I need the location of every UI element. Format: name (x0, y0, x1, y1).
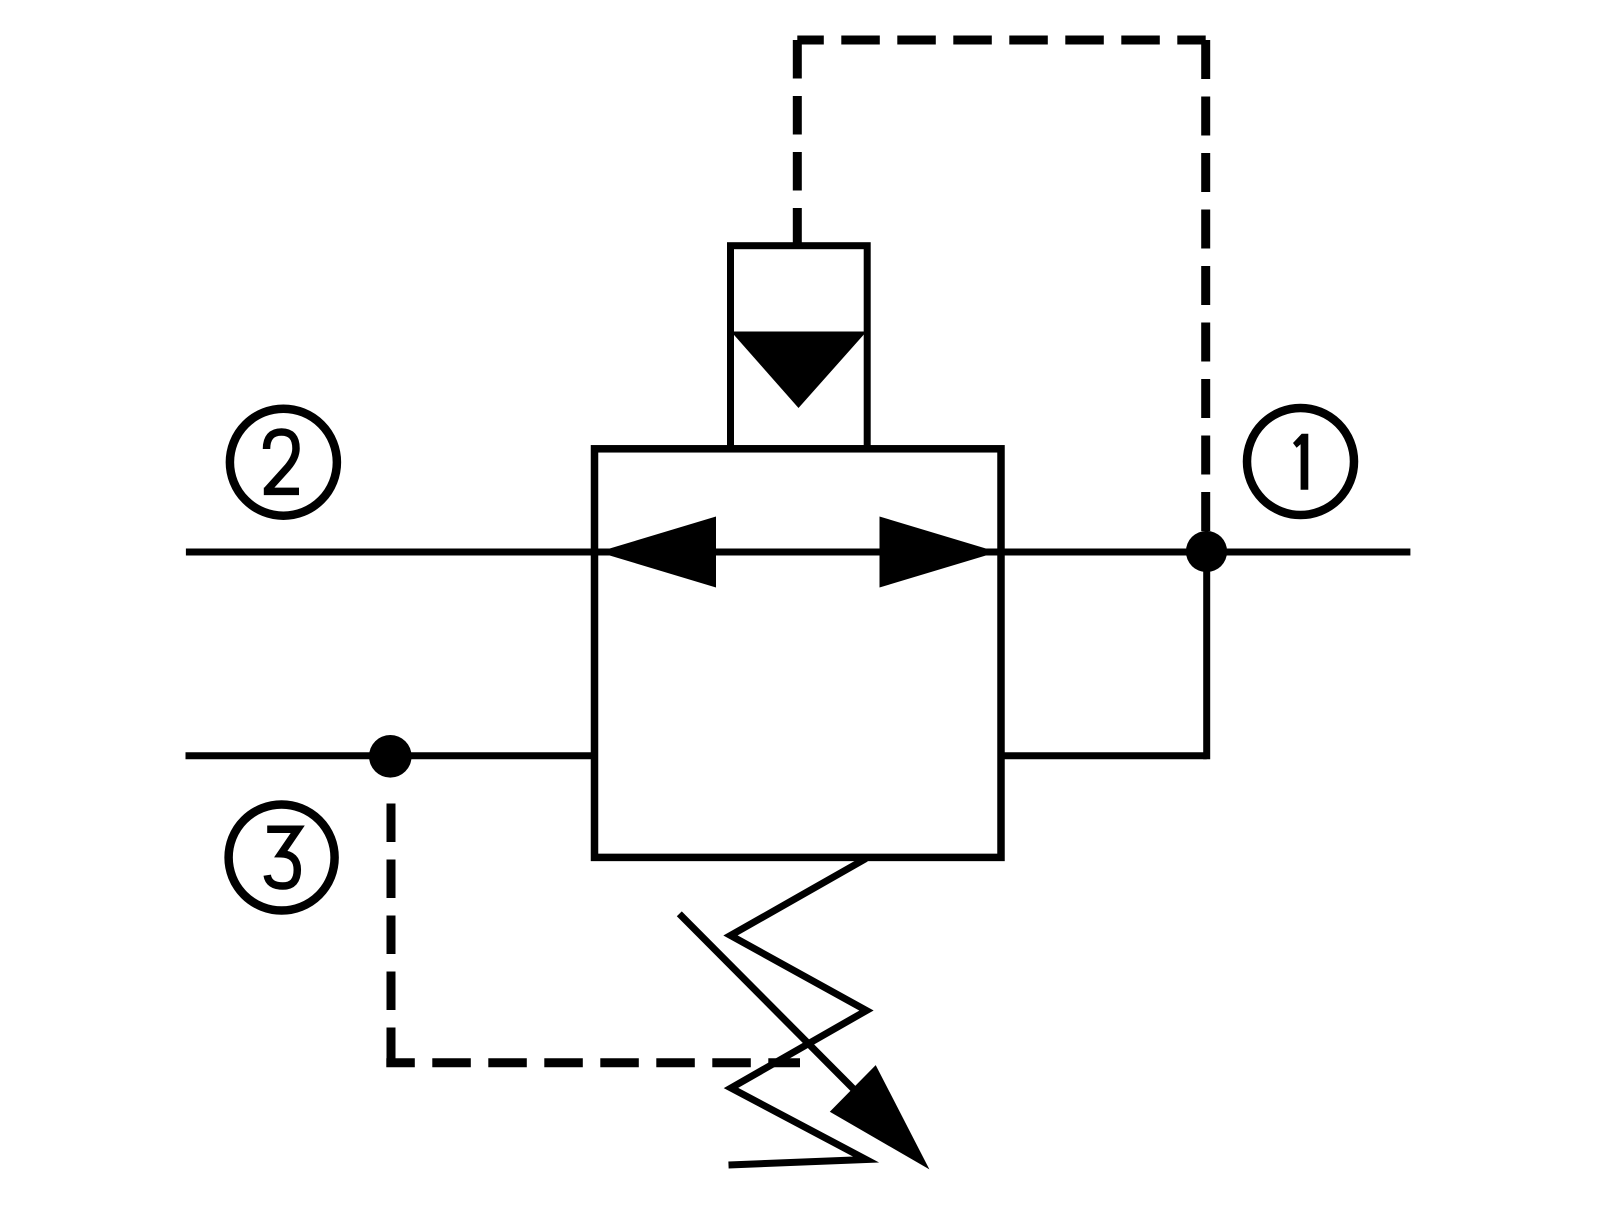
digit 3 label (267, 829, 298, 886)
wire valve to node 1 horizontal (1001, 752, 1207, 759)
digit 2 label (264, 432, 299, 491)
spring (729, 859, 867, 1166)
adjustment arrow shaft (679, 914, 858, 1094)
junction node 1 dot (1186, 531, 1227, 572)
wire port 2 line (186, 549, 595, 556)
junction node 3 dot (369, 735, 412, 778)
adjustment arrowhead (830, 1065, 930, 1169)
wire port 1 line (1001, 549, 1410, 556)
valve body box (595, 449, 1002, 858)
wire node 1 vertical riser (1203, 552, 1210, 760)
pilot cap rectangle (731, 246, 868, 449)
dashed pilot line top horizontal (797, 36, 1205, 45)
dashed pilot line up from cap (793, 40, 802, 243)
left flow arrowhead (598, 517, 716, 588)
wire port 3 line (186, 752, 595, 759)
port circle 3 (229, 805, 335, 911)
port circle 2 (230, 409, 337, 516)
dashed drain line down from node 3 (387, 786, 396, 1063)
dashed drain line bottom horizontal (386, 1058, 800, 1067)
digit 1 label (1293, 434, 1308, 490)
pilot cap filled triangle (731, 332, 867, 409)
dashed pilot line right vertical (1201, 40, 1210, 548)
right flow arrowhead (880, 517, 998, 588)
wire main line through valve (595, 549, 1002, 556)
port circle 1 (1247, 408, 1354, 515)
